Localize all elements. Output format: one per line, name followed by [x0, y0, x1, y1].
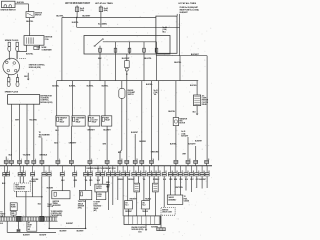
connector row2 x85.6: [85, 166, 87, 173]
svg-text:HOT AT ALL TIMES: HOT AT ALL TIMES: [178, 2, 196, 5]
fuse F2: [99, 7, 102, 12]
connector row2 x20.2: [19, 166, 21, 173]
injector resistor R1: [134, 183, 140, 192]
relay box K2: [72, 116, 85, 126]
wire right drop: [195, 146, 197, 160]
wire ICM pin2 WHT: [19, 104, 21, 160]
distributor/ICM box U1: [8, 95, 40, 105]
wire stub x112: [112, 176, 114, 205]
wire K3 down: [89, 126, 91, 160]
pigtail resistor: [125, 61, 130, 68]
junction right: [85, 228, 87, 230]
svg-text:CONDENSER: CONDENSER: [42, 49, 53, 51]
connector row1 x175.9: [174, 160, 178, 163]
wire fuse3 to pigtail: [126, 54, 128, 61]
injector box J2: [143, 176, 145, 200]
connector row2 x32.6: [32, 166, 34, 173]
connector row1 x206.7: [205, 160, 209, 163]
connector row2 x207.1: [206, 166, 208, 173]
wire stub x90: [89, 176, 91, 186]
connector row2 x117.8: [117, 166, 119, 173]
connector on ground wire: [18, 222, 20, 230]
connector row2 x127.7: [127, 166, 129, 173]
relay box below band: [27, 221, 37, 231]
wire to firewall: [119, 163, 121, 165]
junction left: [48, 228, 50, 230]
svg-text:YEL/GRN: YEL/GRN: [29, 119, 37, 121]
svg-text:WHT/GRN: WHT/GRN: [175, 187, 183, 189]
throttle sensor box: [79, 190, 91, 199]
svg-text:CLUTCH: CLUTCH: [92, 120, 98, 122]
svg-text:CLUTCH: CLUTCH: [96, 186, 102, 188]
wire sensor to bottom rail: [85, 200, 87, 229]
svg-text:BLK/YEL: BLK/YEL: [190, 85, 197, 87]
condenser box: [34, 46, 39, 49]
svg-text:CONDENSER: CONDENSER: [76, 118, 86, 120]
wire junction down: [76, 18, 78, 28]
svg-text:RED/WHT: RED/WHT: [130, 198, 137, 200]
svg-text:BLK/YEL: BLK/YEL: [102, 86, 109, 88]
svg-text:CHECK CONN: CHECK CONN: [162, 212, 173, 214]
connector row2 x154.1: [153, 166, 155, 173]
main relay box: [84, 36, 170, 55]
wire tachometer: [41, 138, 43, 161]
wire stub GRN: [74, 176, 76, 187]
dashed wire to ICM: [19, 57, 26, 59]
svg-text:BLK/WHT: BLK/WHT: [191, 54, 200, 56]
fuse F2 wire: [100, 5, 102, 27]
wire ECM ground: [145, 225, 147, 230]
junction: [41, 196, 43, 198]
test tachometer connector (dashed): [14, 183, 31, 191]
wire gauge feed 3: [179, 176, 181, 195]
wire to firewall: [57, 163, 59, 165]
svg-text:BRN/BLK: BRN/BLK: [40, 154, 48, 156]
wire service check down: [163, 176, 165, 207]
wire right rail down: [206, 56, 208, 161]
wire service check to ground: [160, 215, 162, 228]
bus wire BLK/YEL: [57, 80, 199, 82]
wire fuse15 down: [187, 137, 189, 160]
wire from tach box: [16, 191, 41, 197]
distributor: [3, 58, 20, 75]
wire long down x108: [108, 176, 110, 210]
junction on feed line: [76, 17, 78, 19]
svg-text:MODULE (ICM): MODULE (ICM): [29, 67, 41, 69]
wire down to noise suppressor: [28, 4, 30, 12]
wire to firewall: [141, 163, 143, 165]
wire fan motor down: [175, 126, 177, 161]
wire junction box to band: [13, 215, 15, 217]
connector row2 x90.3: [89, 166, 91, 173]
wire ignition timing adjuster: [61, 176, 63, 190]
svg-text:BLK/WHT: BLK/WHT: [77, 231, 84, 233]
svg-text:BLK/WHT: BLK/WHT: [195, 141, 202, 143]
connector row1 x151.5: [150, 160, 154, 163]
spark plug P3: [8, 74, 10, 78]
wire BLK/YEL drop to bus: [179, 56, 181, 81]
connector row2 x98.0: [97, 166, 99, 173]
svg-text:BLU/WHT: BLU/WHT: [103, 130, 111, 132]
svg-text:BLK: BLK: [0, 223, 3, 225]
connector row1 x6.2: [4, 160, 8, 163]
bottom wire BLK/WHT: [7, 231, 56, 233]
ignition coil T1: [24, 36, 44, 46]
wire K4 down: [106, 126, 108, 160]
wire pigtail to bus: [126, 71, 128, 81]
wire R1 to ECM: [136, 192, 138, 216]
connector row1 x188.0: [186, 160, 190, 163]
connector row1 x135.2: [133, 160, 137, 163]
wire to firewall: [26, 163, 28, 165]
relay box A: [97, 176, 99, 184]
svg-text:CLUTCH: CLUTCH: [202, 102, 209, 104]
wire R2 to ECM: [154, 192, 156, 216]
wire stub: [5, 157, 7, 161]
wire ICM pin3 YEL/GRN: [26, 104, 28, 160]
wire coil to condenser: [37, 45, 40, 48]
wire resistor to ground: [196, 106, 198, 114]
wire bus drop to relay box 2: [72, 81, 74, 116]
wire K1 down: [57, 126, 59, 160]
svg-text:BLK/YEL: BLK/YEL: [26, 21, 34, 23]
wire fuse1 to bus: [99, 54, 101, 81]
service check connector (dashed): [161, 207, 175, 215]
svg-text:YEL/GRN: YEL/GRN: [46, 188, 53, 190]
wire J2 to ECM: [145, 209, 147, 216]
connector row2 x74.7: [74, 166, 76, 173]
distributor terminal 3: [7, 69, 10, 72]
coolant temp sensor: [121, 81, 123, 89]
wire stub 191: [191, 176, 193, 192]
svg-text:GRN/ORN: GRN/ORN: [151, 152, 159, 154]
gauge assembly box: [167, 195, 183, 204]
wire to ignition coil: [29, 18, 31, 36]
svg-text:WHT: WHT: [190, 179, 193, 181]
connector row1 x89.9: [88, 160, 92, 163]
firewall line: [0, 165, 212, 167]
connector row2 x149.5: [149, 166, 151, 173]
connector row2 x7.6: [7, 166, 9, 173]
relay internal bus: [103, 41, 157, 43]
svg-text:COMP-: COMP-: [202, 98, 207, 100]
fuse drop 5: [156, 42, 158, 54]
connector row1 x71.4: [69, 160, 73, 163]
ground: [27, 79, 30, 81]
fuse F1: [75, 7, 78, 12]
fuse drop 2: [115, 42, 117, 54]
wire horizontal BLK/WHT: [156, 55, 207, 57]
spark plug P4: [17, 74, 19, 78]
connector row1 x33.8: [32, 160, 36, 163]
ignition timing adjuster box: [52, 191, 70, 199]
svg-text:CONNECTOR: CONNECTOR: [15, 189, 25, 191]
wire bus drop mid4: [158, 81, 160, 161]
wire to firewall: [187, 163, 189, 165]
connector row2 x180.4: [179, 166, 181, 173]
svg-text:INTER-: INTER-: [97, 194, 102, 196]
wire right rail bottom stub: [206, 176, 208, 188]
wire stub x117: [117, 176, 119, 200]
svg-text:YEL: YEL: [85, 180, 88, 182]
wire to firewall: [134, 163, 136, 165]
svg-text:TO SHIFT: TO SHIFT: [93, 201, 100, 203]
wire bus drop mid2: [141, 81, 143, 161]
connector row2 x133.9: [133, 166, 135, 173]
wire mid label drop: [134, 134, 136, 160]
connector row2 x175.1: [174, 166, 176, 173]
spark plug P1: [8, 42, 10, 46]
wire throttle sensor: [85, 176, 87, 190]
injector box J1: [127, 176, 129, 200]
bottom wire mid: [49, 227, 85, 229]
svg-text:No.2: No.2: [143, 204, 146, 206]
wire service down: [48, 176, 50, 228]
connector row2 x62.3: [61, 166, 63, 173]
connector row2 x186.0: [185, 166, 187, 173]
svg-text:INJ: INJ: [125, 202, 127, 204]
svg-text:BLK/WHT: BLK/WHT: [180, 12, 189, 14]
svg-text:HOT IN RUN AND START: HOT IN RUN AND START: [65, 2, 91, 5]
wire to firewall: [19, 163, 21, 165]
wire fuse2 horizontal: [77, 26, 180, 28]
ECM connector box: [124, 216, 160, 225]
svg-text:BLK/YEL: BLK/YEL: [17, 2, 25, 4]
wire plug P1 to distributor: [8, 51, 10, 60]
svg-text:G101: G101: [138, 232, 142, 234]
wire sensor down: [121, 98, 123, 150]
svg-text:GRN/WHT: GRN/WHT: [69, 142, 78, 144]
connector row1 x27.0: [25, 160, 29, 163]
svg-text:MODULE (ICM): MODULE (ICM): [40, 102, 52, 104]
connector row1 x126.8: [125, 160, 129, 163]
ignition switch SW1: [2, 1, 16, 7]
wire stub 186: [185, 176, 187, 190]
svg-text:RED/WHT: RED/WHT: [125, 211, 132, 213]
svg-text:BLK/WHT: BLK/WHT: [181, 135, 188, 137]
svg-text:SENSOR: SENSOR: [78, 205, 85, 207]
connector row2 x202.1: [201, 166, 203, 173]
svg-text:BLK/YEL: BLK/YEL: [26, 54, 34, 56]
svg-text:GRN/: GRN/: [106, 184, 110, 186]
wire bus feed vertical: [61, 18, 63, 81]
svg-text:BLK/WHT: BLK/WHT: [199, 179, 206, 181]
wire to firewall: [195, 163, 197, 165]
connector row2 x123.1: [122, 166, 124, 173]
wire plug P2 to distributor: [16, 51, 18, 59]
svg-text:IGNITION SWITCH: IGNITION SWITCH: [0, 9, 16, 11]
connector row2 x138.6: [138, 166, 140, 173]
svg-text:BLK/WHT: BLK/WHT: [188, 143, 196, 145]
ground pad 2: [17, 216, 22, 221]
wire ground BLK: [27, 73, 29, 79]
connector row2 x108.5: [108, 166, 110, 173]
wire bus drop to relay box 1: [56, 81, 58, 116]
spark plug P2: [16, 42, 18, 46]
fuse drop 4: [143, 42, 145, 54]
svg-text:MOTOR: MOTOR: [179, 122, 185, 124]
svg-text:RESSOR: RESSOR: [202, 100, 209, 102]
svg-text:TEST: TEST: [15, 184, 19, 186]
wire injector resistor 1 feeds: [133, 176, 135, 183]
wire bus feed horizontal: [62, 17, 156, 19]
wire to firewall: [70, 163, 72, 165]
svg-text:YEL: YEL: [154, 94, 157, 96]
wire ICM pin1 BLK: [11, 104, 13, 160]
tall fuse box right: [156, 16, 177, 53]
connector row2 x191.5: [191, 166, 193, 173]
connector row1 x195.7: [194, 160, 198, 163]
connector row2 x102.7: [102, 166, 104, 173]
svg-text:SPARK PLUGS: SPARK PLUGS: [5, 90, 19, 93]
svg-text:BLK/YEL: BLK/YEL: [72, 22, 79, 24]
distributor terminal 4: [14, 69, 17, 72]
connector row1 x19.5: [18, 160, 22, 163]
connector row2 x49.1: [48, 166, 50, 173]
wire gauge feed 1: [169, 176, 171, 195]
svg-text:BLK/WHT: BLK/WHT: [39, 234, 46, 236]
svg-text:BLK/YEL: BLK/YEL: [170, 143, 177, 145]
fuse F1 wire: [76, 5, 78, 17]
wire band drop left: [6, 221, 8, 232]
junction box: [11, 211, 16, 215]
wire down to ground pad: [41, 176, 43, 216]
wire to firewall: [151, 163, 153, 165]
svg-text:SWITCH: SWITCH: [128, 94, 135, 96]
svg-text:TIMING: TIMING: [53, 203, 59, 205]
connector row1 x11.5: [10, 160, 14, 163]
connector row2 x164.2: [163, 166, 165, 173]
wire x123 to ECM: [122, 176, 124, 216]
svg-text:BLK/YEL: BLK/YEL: [174, 62, 182, 64]
svg-text:YEL/GRN: YEL/GRN: [29, 181, 36, 183]
connector row2 x112.8: [112, 166, 114, 173]
distributor terminal 2: [13, 62, 16, 65]
wire bus drop mid3: [151, 81, 153, 161]
junction: [126, 73, 127, 74]
svg-text:BLU/RED: BLU/RED: [139, 141, 146, 143]
svg-text:RED/WHT: RED/WHT: [128, 179, 135, 181]
relay contact: [95, 39, 102, 45]
svg-text:BLK/WHT: BLK/WHT: [66, 223, 73, 225]
svg-text:YEL/GRN: YEL/GRN: [23, 154, 31, 156]
svg-text:YEL/BLU: YEL/BLU: [142, 211, 148, 213]
wire fuse4 to bus: [143, 54, 145, 81]
svg-text:BLK/YEL: BLK/YEL: [87, 86, 94, 88]
wire to firewall: [41, 163, 43, 165]
distributor terminal 1: [6, 61, 9, 64]
wire to firewall: [89, 163, 91, 165]
svg-text:BLU/WHT: BLU/WHT: [131, 132, 138, 134]
connector row1 x57.9: [56, 160, 60, 163]
wire bus drop to relay box 3: [89, 81, 91, 116]
wire x149 to ECM: [149, 176, 151, 200]
svg-text:(50A): (50A): [80, 9, 84, 12]
ground band: [0, 216, 58, 218]
relay box K1: [56, 116, 69, 126]
wire J1 to ECM: [128, 209, 130, 216]
wire gauge feed 2: [174, 176, 176, 195]
wire yel/grn down: [32, 176, 34, 196]
relay box K4: [102, 116, 112, 126]
wire to firewall: [106, 163, 108, 165]
svg-text:UNDER-DASH FUSE/RELAY BOX: UNDER-DASH FUSE/RELAY BOX: [86, 167, 116, 170]
svg-text:BLK/WHT: BLK/WHT: [82, 15, 91, 17]
wire to firewall: [11, 163, 13, 165]
svg-text:BLK/WHT: BLK/WHT: [23, 234, 30, 236]
connector row2 x4.7: [4, 166, 6, 173]
wire filter to ground band: [13, 210, 15, 213]
wire bus drop to relay box 4: [104, 81, 106, 116]
wire radiator fan motor feed: [175, 81, 177, 118]
connector row1 x120.0: [118, 160, 122, 163]
svg-text:(TPS): (TPS): [78, 207, 82, 209]
svg-text:SWITCH: SWITCH: [96, 188, 101, 190]
connector row2 x44.0: [43, 166, 45, 173]
wire drop right of box: [179, 14, 181, 56]
wire ICM pin4 BLU/GRN: [33, 104, 35, 160]
svg-text:GND: GND: [11, 213, 14, 215]
svg-text:SWITCH: SWITCH: [35, 15, 42, 17]
injector resistor R2: [153, 183, 159, 192]
connector row2 x196.8: [196, 166, 198, 173]
svg-text:WHT: WHT: [97, 180, 100, 182]
connector row2 x143.9: [143, 166, 145, 173]
wire bus to resistor: [196, 81, 198, 95]
svg-text:GRN/WHT: GRN/WHT: [87, 130, 96, 132]
svg-text:SOLENOID: SOLENOID: [93, 206, 102, 208]
ground ECM: [145, 229, 148, 231]
ground right: [196, 114, 199, 116]
wire stub 202: [201, 176, 203, 188]
svg-text:No.1: No.1: [125, 204, 128, 206]
fuse drop 1: [99, 46, 101, 54]
svg-text:THROTTLE: THROTTLE: [78, 201, 86, 203]
wire to firewall: [175, 163, 177, 165]
wire to firewall: [33, 163, 35, 165]
svg-text:BLU/WHT: BLU/WHT: [122, 58, 131, 60]
svg-text:IGNITION: IGNITION: [53, 201, 60, 203]
wire fuse2 to bus: [115, 54, 117, 81]
connector row1 x141.8: [140, 160, 144, 163]
svg-text:ENGINE: ENGINE: [128, 90, 134, 92]
connector row2 x170.4: [169, 166, 171, 173]
svg-text:FUEL: FUEL: [184, 198, 188, 200]
wire to firewall: [5, 163, 7, 165]
ground pad: [40, 216, 44, 221]
wire injector resistor 2 feeds: [153, 176, 155, 183]
connector row2 x158.2: [157, 166, 159, 173]
fuse drop 3: [129, 42, 131, 54]
wire K2 down: [70, 126, 72, 160]
wire coil to distributor: [17, 45, 27, 59]
svg-text:MODULE (ECM): MODULE (ECM): [132, 229, 144, 231]
svg-text:CONTROL UNIT: CONTROL UNIT: [51, 213, 62, 215]
wire ground rail BLK: [4, 176, 6, 217]
svg-text:No.1 (MAIN): No.1 (MAIN): [98, 22, 107, 25]
wire bus drop mid1: [126, 81, 128, 161]
noise filter box: [10, 203, 17, 211]
svg-text:BLK/YEL: BLK/YEL: [56, 15, 64, 17]
relay box K3: [88, 116, 100, 126]
svg-text:POS: POS: [28, 227, 31, 229]
wire tach box to ground band: [25, 191, 27, 217]
svg-text:No.15: No.15: [181, 131, 185, 133]
wire to firewall: [206, 163, 208, 165]
wire to tach connector: [19, 176, 21, 183]
wire stub 196: [196, 176, 198, 188]
svg-text:BLK/YEL: BLK/YEL: [69, 86, 76, 88]
